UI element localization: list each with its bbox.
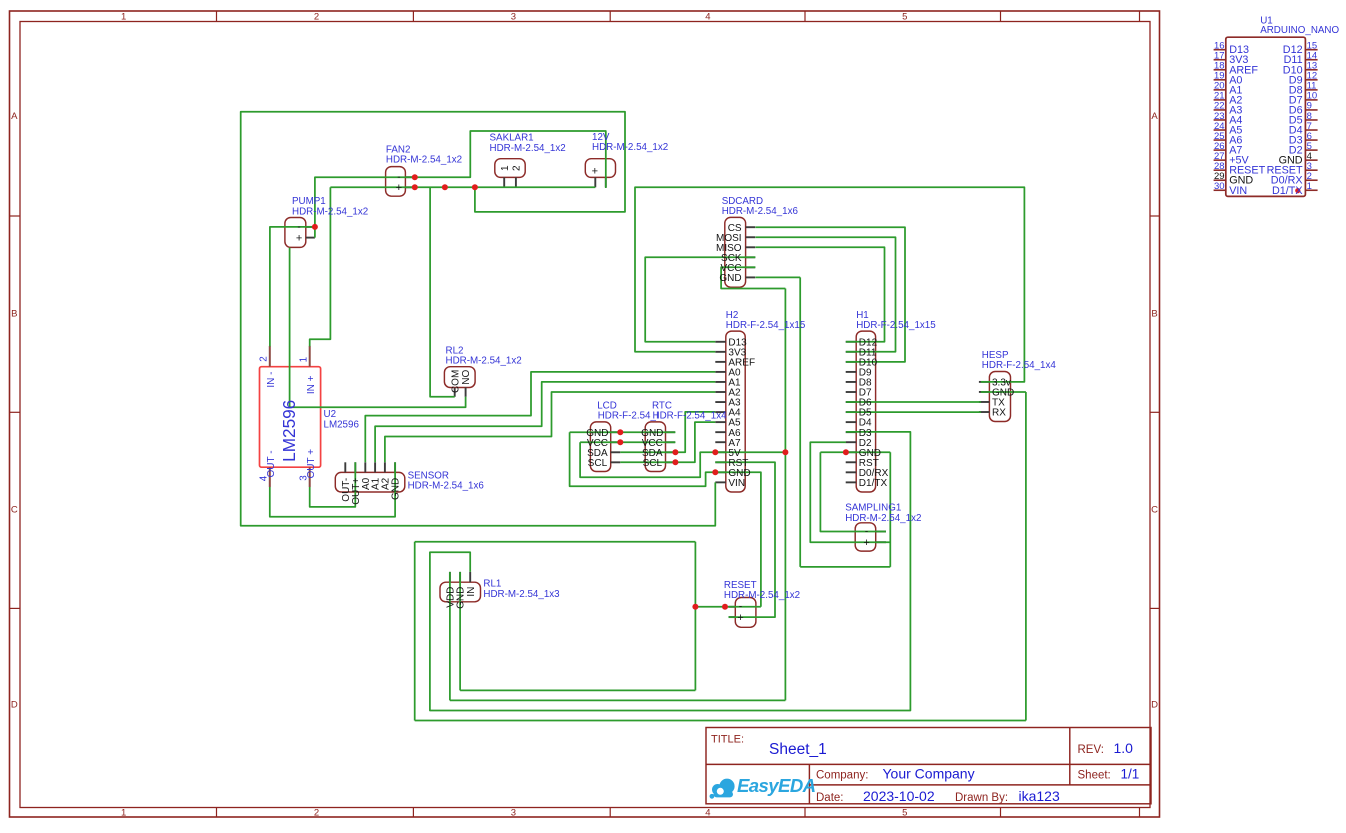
svg-text:HDR-M-2.54_1x6: HDR-M-2.54_1x6 (408, 480, 485, 491)
FAN2 pin 1 stub (405, 176, 414, 178)
svg-text:30: 30 (1214, 181, 1225, 192)
wire net 3V3 top rail to HESP 3.3v (635, 187, 1024, 382)
wire net 5V rail vertical (784, 289, 786, 701)
wire net VCC loop to H2 5V (580, 442, 785, 477)
SENSOR pin OUT+ stub (354, 462, 356, 472)
U1 pin 25 stub (1214, 139, 1226, 141)
wire net GND bottom rail L4 (415, 720, 1026, 722)
U1 pin 27 stub (1214, 159, 1226, 161)
border column ticks bottom (216, 808, 218, 818)
svg-text:Sheet_1: Sheet_1 (769, 741, 827, 758)
connector 12V (HDR-M-2.54_1x2) body (585, 159, 615, 178)
SAKLAR1 pin 1 stub (503, 177, 505, 187)
U1 pin 23 stub (1214, 119, 1226, 121)
svg-text:Your Company: Your Company (883, 766, 975, 782)
wire RL1 GND vertical (459, 572, 461, 691)
H1 pin D10 stub (846, 361, 857, 363)
HESP pin TX stub (979, 401, 990, 403)
svg-text:VIN: VIN (1229, 185, 1247, 197)
svg-text:12V: 12V (592, 132, 610, 143)
U1 pin 20 stub (1214, 89, 1226, 91)
H1 pin RST stub (846, 461, 857, 463)
SDCARD pin CS stub (746, 226, 756, 228)
wire SDCARD GND row (755, 276, 800, 278)
svg-text:1/1: 1/1 (1121, 767, 1140, 782)
RTC pin VCC stub (666, 441, 676, 443)
svg-text:HDR-M-2.54_1x2: HDR-M-2.54_1x2 (446, 356, 522, 367)
H2 pin A2 stub (715, 391, 726, 393)
wire net GND bottom rail L1 (460, 689, 695, 691)
svg-text:-: - (297, 222, 300, 233)
wire net A2 SENSOR to H2 (385, 392, 715, 462)
RTC pin GND stub (666, 431, 676, 433)
RL1 pin VDD stub (449, 572, 451, 582)
svg-text:1: 1 (121, 807, 126, 818)
wire H1 GND row (820, 451, 890, 453)
svg-text:3: 3 (511, 11, 516, 22)
sheet border inner frame (20, 22, 1150, 808)
H1 pin D11 stub (846, 351, 857, 353)
wire net A1 SENSOR to H2 (375, 382, 715, 462)
svg-text:NO: NO (461, 369, 472, 384)
H2 pin A6 stub (715, 431, 726, 433)
H1 pin D9 stub (846, 371, 857, 373)
H1 pin D0/RX stub (846, 471, 857, 473)
H2 pin A0 stub (715, 371, 726, 373)
svg-text:GND: GND (719, 273, 741, 284)
H1 pin D7 stub (846, 391, 857, 393)
title block frame (706, 728, 1151, 804)
junction dots (312, 224, 318, 230)
H2 pin A3 stub (715, 401, 726, 403)
SDCARD pin VCC stub (746, 266, 756, 268)
connector RESET (HDR-M-2.54_1x2) body (735, 598, 756, 628)
svg-text:D1/TX: D1/TX (859, 478, 888, 489)
connector SDCARD (HDR-M-2.54_1x6) body (725, 217, 746, 287)
svg-text:HDR-M-2.54_1x2: HDR-M-2.54_1x2 (490, 143, 566, 154)
wire FAN2 pin1 to PUMP1 and 12V loop top (315, 131, 606, 238)
SENSOR pin OUT- stub (344, 462, 346, 472)
wire SDCARD MOSI to H1 D11 (755, 237, 895, 352)
svg-text:REV:: REV: (1078, 744, 1104, 756)
wire net RST H2 to RESET pin2 (715, 462, 775, 617)
svg-text:1: 1 (1307, 181, 1312, 192)
wire net A0 SENSOR to H2 (365, 372, 715, 462)
svg-text:IN -: IN - (266, 372, 277, 388)
U1 pin 19 stub (1214, 79, 1226, 81)
svg-text:HDR-F-2.54_1x4: HDR-F-2.54_1x4 (982, 360, 1057, 371)
H2 pin RST stub (715, 461, 726, 463)
wire net GND LCD-RTC row (570, 431, 676, 433)
connector PUMP1 (HDR-M-2.54_1x2) body (285, 218, 306, 248)
svg-text:Date:: Date: (816, 792, 844, 804)
connector SENSOR (HDR-M-2.54_1x6) body (335, 472, 405, 492)
svg-text:COM: COM (450, 370, 461, 393)
svg-text:RX: RX (992, 408, 1006, 419)
svg-text:TITLE:: TITLE: (711, 734, 744, 746)
U1 pin 24 stub (1214, 129, 1226, 131)
SENSOR pin A2 stub (384, 462, 386, 472)
U1 pin 12 stub (1305, 79, 1317, 81)
svg-text:1: 1 (500, 165, 511, 171)
connector SAKLAR1 (HDR-M-2.54_1x2) body (495, 159, 525, 178)
svg-text:2: 2 (512, 165, 523, 171)
U1 pin 21 stub (1214, 99, 1226, 101)
wire net SDA RTC to H2 A4 (620, 412, 715, 452)
RL1 pin IN stub (469, 572, 471, 582)
svg-text:VIN: VIN (728, 478, 745, 489)
connector SAMPLING1 (HDR-M-2.54_1x2) body (855, 523, 876, 551)
border row ticks right (1150, 215, 1160, 217)
RESET pin 1 stub (729, 606, 736, 608)
svg-text:4: 4 (705, 11, 710, 22)
svg-text:3: 3 (511, 807, 516, 818)
svg-text:LM2596: LM2596 (279, 400, 299, 462)
wire U2 OUT- to SENSOR GND (270, 462, 395, 517)
wire RL1 VDD vertical (449, 572, 451, 701)
svg-text:Sheet:: Sheet: (1078, 770, 1111, 782)
connector H2 (HDR-F-2.54_1x15) body (726, 331, 745, 492)
wire RL1 IN to H1 D3 (430, 432, 911, 711)
H2 pin A1 stub (715, 381, 726, 383)
LCD pin VCC stub (611, 441, 621, 443)
svg-text:1.0: 1.0 (1114, 740, 1134, 756)
svg-text:SCL: SCL (588, 458, 608, 469)
wire SDCARD VCC to 5V rail (721, 267, 785, 288)
connector H1 (HDR-F-2.54_1x15) body (856, 331, 875, 492)
SDCARD pin MOSI stub (746, 236, 756, 238)
wire net GND left vertical to L4 (414, 542, 416, 721)
U1 pin 5 stub (1305, 149, 1317, 151)
12V pin + stub (594, 177, 596, 187)
svg-text:D: D (1151, 700, 1158, 711)
H2 pin GND stub (715, 471, 726, 473)
SAMPLING1 pin 1 stub (876, 531, 886, 533)
wire SDCARD MISO to H1 D12 (755, 247, 884, 341)
SENSOR pin A1 stub (374, 462, 376, 472)
wire net 5V bottom rail to RL1 VDD (450, 699, 786, 701)
U1 pin 14 stub (1305, 59, 1317, 61)
H1 pin D4 stub (846, 421, 857, 423)
U1 pin 11 stub (1305, 89, 1317, 91)
svg-text:EasyEDA: EasyEDA (737, 775, 816, 796)
connector LCD (HDR-F-2.54_I) body (590, 422, 610, 472)
H1 pin D12 stub (846, 341, 857, 343)
svg-text:RL1: RL1 (483, 579, 501, 590)
wire HESP GND row (981, 391, 1026, 393)
svg-text:1: 1 (299, 357, 310, 362)
wire H1 D5 to HESP RX (846, 411, 981, 413)
svg-text:HDR-F-2.54_1x4: HDR-F-2.54_1x4 (653, 411, 728, 422)
U1 pin 1 stub (1305, 189, 1317, 191)
U1 pin 30 stub (1214, 189, 1226, 191)
svg-text:2: 2 (314, 807, 319, 818)
wire net GND frame right vertical (694, 542, 696, 691)
connector RTC (HDR-F-2.54_1x4) body (645, 422, 665, 472)
svg-text:5: 5 (902, 807, 907, 818)
U1 pin 10 stub (1305, 99, 1317, 101)
H2 pin D13 stub (715, 341, 726, 343)
border column ticks top (216, 11, 218, 22)
svg-text:HDR-M-2.54_1x6: HDR-M-2.54_1x6 (722, 206, 799, 217)
H2 pin AREF stub (715, 361, 726, 363)
H2 pin VIN stub (715, 481, 726, 483)
U2 pin 3 stub bottom-right (309, 467, 311, 487)
H2 pin A4 stub (715, 411, 726, 413)
U2 pin 4 stub bottom-left (269, 467, 271, 487)
border row ticks left (10, 215, 21, 217)
svg-text:B: B (11, 308, 17, 319)
svg-text:Company:: Company: (816, 770, 868, 782)
HESP pin RX stub (979, 411, 990, 413)
svg-text:+: + (396, 182, 402, 194)
svg-text:+: + (737, 612, 743, 624)
H2 pin 3V3 stub (715, 351, 726, 353)
wire U2 OUT+ to SENSOR OUT+ (310, 462, 356, 507)
RL1 pin GND stub (459, 572, 461, 582)
wire PUMP1 pin1 to U2 IN- (270, 227, 315, 347)
U1 pin 22 stub (1214, 109, 1226, 111)
EasyEDA logo cloud (712, 779, 735, 798)
svg-text:ika123: ika123 (1019, 788, 1060, 804)
SDCARD pin MISO stub (746, 246, 756, 248)
wire net GND frame top rail (415, 541, 696, 543)
U2 pin 1 stub top-right (309, 346, 311, 367)
svg-text:HDR-M-2.54_1x3: HDR-M-2.54_1x3 (483, 589, 560, 600)
U1 pin 6 stub (1305, 139, 1317, 141)
svg-text:+: + (863, 537, 869, 549)
SAKLAR1 pin 2 stub (515, 177, 517, 187)
RL2 pin NO stub (465, 388, 467, 397)
wire RL2 NO to U2 area (290, 248, 466, 408)
microcontroller U1 ARDUINO_NANO body (1226, 37, 1306, 196)
wire FAN2 pin2 row to SAKLAR1 and 12V (330, 186, 595, 188)
wire net GND LCD loop to H2 GND (570, 432, 761, 607)
H1 pin D2 stub (846, 441, 857, 443)
svg-text:A: A (1151, 111, 1158, 122)
H2 pin A5 stub (715, 421, 726, 423)
wire RL2 COM net (430, 187, 455, 396)
wire SDCARD GND bottom link (800, 566, 890, 568)
svg-text:OUT +: OUT + (306, 449, 317, 479)
svg-text:ARDUINO_NANO: ARDUINO_NANO (1260, 25, 1339, 36)
U1 pin 29 stub (1214, 179, 1226, 181)
H1 pin D5 stub (846, 411, 857, 413)
svg-text:5: 5 (902, 11, 907, 22)
svg-text:OUT -: OUT - (266, 450, 277, 477)
svg-text:U2: U2 (324, 409, 337, 420)
U1 pin 4 stub (1305, 159, 1317, 161)
svg-text:D1/TX: D1/TX (1272, 185, 1303, 197)
svg-text:HDR-M-2.54_1x2: HDR-M-2.54_1x2 (845, 513, 921, 524)
H2 pin 5V stub (715, 451, 726, 453)
RESET pin 2 stub (729, 616, 736, 618)
wire SDCARD GND rail vertical (799, 277, 801, 567)
U1 pin 15 stub (1305, 49, 1317, 51)
svg-text:HDR-F-2.54_1x15: HDR-F-2.54_1x15 (726, 320, 806, 331)
U1 pin 28 stub (1214, 169, 1226, 171)
svg-text:Drawn By:: Drawn By: (955, 792, 1008, 804)
wire SDCARD SCK to H2 D13 (645, 257, 755, 342)
U1 pin 9 stub (1305, 109, 1317, 111)
wire H1 GND to SAMPLING1 pin1 (820, 452, 886, 531)
H1 pin D8 stub (846, 381, 857, 383)
LCD pin GND stub (611, 431, 621, 433)
svg-text:C: C (11, 504, 18, 515)
svg-text:2023-10-02: 2023-10-02 (863, 788, 935, 804)
svg-text:1: 1 (121, 11, 126, 22)
H2 pin A7 stub (715, 441, 726, 443)
wire SDCARD CS to H1 D10 (755, 227, 905, 362)
PUMP1 pin 1 stub (306, 226, 315, 228)
wire H1 GND right drop (889, 452, 891, 567)
wire HESP GND drop (1025, 392, 1027, 721)
H1 pin D1/TX stub (846, 481, 857, 483)
connector RL1 (HDR-M-2.54_1x3) body (440, 582, 481, 602)
U1 pin 16 stub (1214, 49, 1226, 51)
svg-text:A: A (11, 111, 18, 122)
svg-text:C: C (1151, 504, 1158, 515)
svg-text:+: + (592, 166, 598, 178)
svg-text:GND: GND (391, 478, 402, 500)
U1 pin 7 stub (1305, 129, 1317, 131)
svg-text:SCL: SCL (643, 458, 663, 469)
RL2 pin COM stub (454, 388, 456, 397)
H1 pin GND stub (846, 451, 857, 453)
LCD pin SCL stub (611, 461, 621, 463)
svg-text:B: B (1151, 308, 1157, 319)
U1 pin 13 stub (1305, 69, 1317, 71)
wire FAN2 pin2 drop to U2 IN+ (310, 187, 331, 346)
SDCARD pin GND stub (746, 276, 756, 278)
U1 pin 8 stub (1305, 119, 1317, 121)
svg-text:-: - (865, 526, 868, 537)
LCD pin SDA stub (611, 451, 621, 453)
connector HESP (HDR-F-2.54_1x4) body (989, 372, 1010, 422)
U1 D1/TX red dot (1295, 188, 1300, 193)
RTC pin SDA stub (666, 451, 676, 453)
wire H1 D6 to HESP TX (846, 401, 981, 403)
wire net 12V-VIN big loop (241, 112, 716, 526)
SDCARD pin SCK stub (746, 256, 756, 258)
12V pin - stub (605, 177, 607, 187)
SENSOR pin A0 stub (364, 462, 366, 472)
svg-text:+: + (296, 232, 302, 244)
svg-text:HDR-M-2.54_1x2: HDR-M-2.54_1x2 (724, 590, 800, 601)
svg-text:LM2596: LM2596 (324, 419, 360, 430)
svg-text:4: 4 (705, 807, 710, 818)
svg-text:HDR-F-2.54_1x15: HDR-F-2.54_1x15 (856, 320, 936, 331)
U1 pin 17 stub (1214, 59, 1226, 61)
svg-text:HDR-M-2.54_1x2: HDR-M-2.54_1x2 (592, 142, 668, 153)
HESP pin GND stub (979, 391, 990, 393)
H1 pin D6 stub (846, 401, 857, 403)
wire RESET pin1 row (695, 606, 761, 608)
wire net SCL RTC to H2 A5 (620, 422, 715, 462)
H1 pin D3 stub (846, 431, 857, 433)
svg-text:D: D (11, 700, 18, 711)
PUMP1 pin 2 stub (306, 237, 315, 239)
U1 pin 26 stub (1214, 149, 1226, 151)
SENSOR pin GND stub (394, 462, 396, 472)
U1 pin 3 stub (1305, 169, 1317, 171)
svg-text:HDR-M-2.54_1x2: HDR-M-2.54_1x2 (292, 207, 368, 218)
connector RL2 (HDR-M-2.54_1x2) body (444, 367, 475, 388)
regulator module U2 LM2596 body (260, 367, 321, 468)
svg-text:HDR-F-2.54_I: HDR-F-2.54_I (598, 411, 659, 422)
svg-text:2: 2 (314, 11, 319, 22)
RTC pin SCL stub (666, 461, 676, 463)
svg-text:IN +: IN + (306, 375, 317, 394)
svg-text:IN: IN (466, 587, 477, 597)
connector FAN2 (HDR-M-2.54_1x2) body (386, 167, 406, 197)
wire H1 D2 to SAMPLING1 pin2 (810, 442, 890, 542)
wire net VCC LCD-RTC row (580, 441, 675, 443)
U2 pin 2 stub top-left (269, 346, 271, 367)
svg-text:HDR-M-2.54_1x2: HDR-M-2.54_1x2 (386, 155, 462, 166)
FAN2 pin 2 stub (405, 186, 414, 188)
SAMPLING1 pin 2 stub (876, 541, 886, 543)
U1 pin 18 stub (1214, 69, 1226, 71)
U1 pin 2 stub (1305, 179, 1317, 181)
svg-text:2: 2 (259, 356, 270, 361)
HESP pin 3.3v stub (979, 381, 990, 383)
